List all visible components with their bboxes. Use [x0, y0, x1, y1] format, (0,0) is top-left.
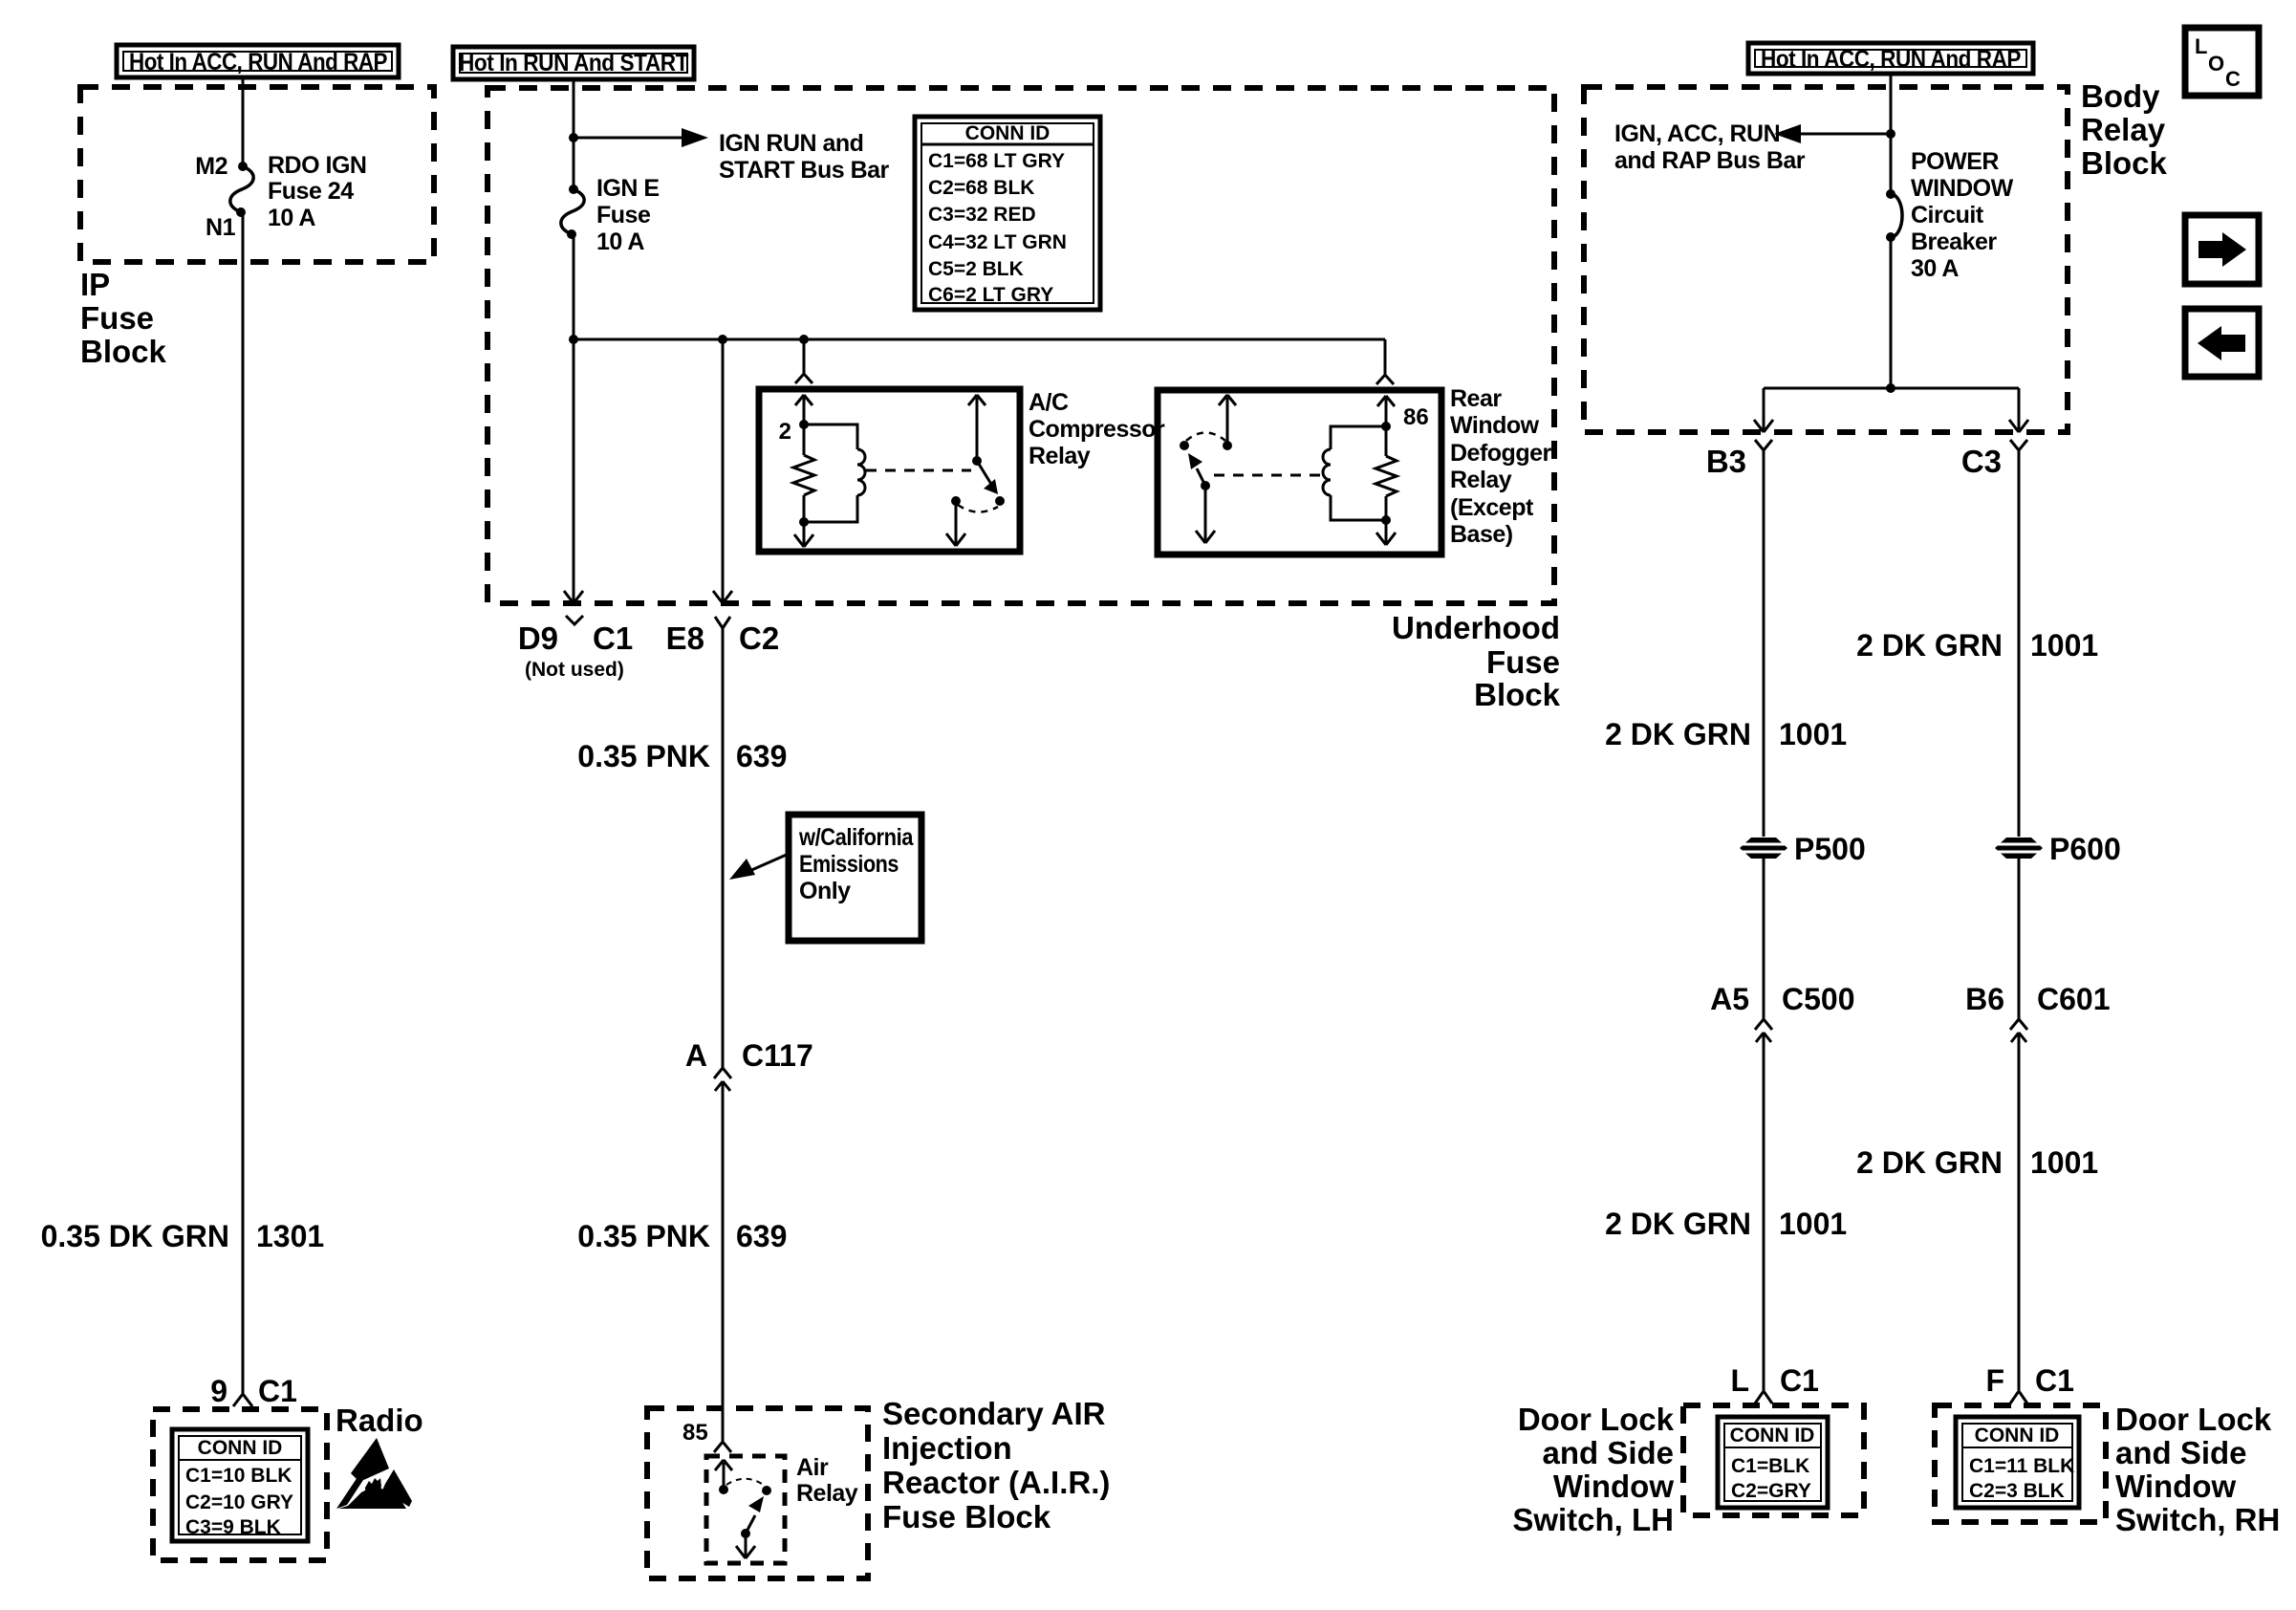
svg-text:C1=11 BLK: C1=11 BLK	[1969, 1455, 2074, 1477]
svg-text:9: 9	[210, 1374, 227, 1408]
connector A5 / C500 labels	[1710, 982, 1854, 1016]
svg-text:85: 85	[682, 1420, 708, 1446]
svg-text:Fuse Block: Fuse Block	[882, 1499, 1051, 1534]
svg-text:Secondary AIR: Secondary AIR	[882, 1396, 1106, 1431]
bus wire horizontal	[574, 338, 1385, 341]
node bottom of coil/resistor	[799, 517, 809, 527]
connector C601 symbol (fork + arrow)	[2010, 1019, 2027, 1390]
svg-text:C3=32 RED: C3=32 RED	[928, 204, 1036, 226]
svg-text:Window: Window	[1553, 1469, 1674, 1504]
A/C Compressor Relay box	[759, 389, 1020, 552]
A/C relay switch common pin (up arrow)	[968, 395, 986, 466]
pass-through grommet P500	[1740, 832, 1866, 866]
connector fork E8/C2	[715, 617, 730, 628]
wire C3 branch with arrow	[2009, 388, 2028, 432]
svg-text:C2=3 BLK: C2=3 BLK	[1969, 1480, 2065, 1502]
Body Relay Block label	[2081, 78, 2168, 181]
pin E8 / connector C2 labels	[666, 620, 780, 656]
arrow from california box to wire	[729, 854, 789, 880]
svg-text:639: 639	[736, 739, 787, 773]
IGN, ACC, RUN and RAP Bus Bar label	[1614, 120, 1806, 174]
Underhood Fuse Block dashed box	[487, 88, 1554, 603]
svg-text:START Bus Bar: START Bus Bar	[719, 157, 890, 184]
svg-text:IP: IP	[80, 267, 110, 302]
air relay lower arrow	[736, 1534, 755, 1558]
svg-text:Door Lock: Door Lock	[2115, 1402, 2272, 1437]
wire C3 down to P600	[2018, 450, 2021, 837]
svg-text:C1=68 LT GRY: C1=68 LT GRY	[928, 150, 1065, 172]
svg-text:1001: 1001	[1779, 1207, 1847, 1241]
svg-text:1001: 1001	[2030, 1145, 2098, 1180]
svg-text:CONN ID: CONN ID	[965, 122, 1051, 144]
svg-text:Only: Only	[799, 878, 851, 904]
wire label 2 DK GRN 1001 (C3 lower)	[1856, 1145, 2098, 1180]
svg-text:(Except: (Except	[1450, 494, 1534, 521]
Rear Window Defogger Relay label	[1450, 385, 1552, 548]
svg-text:Switch, RH: Switch, RH	[2115, 1502, 2280, 1537]
svg-text:C5=2 BLK: C5=2 BLK	[928, 258, 1024, 280]
svg-text:and Side: and Side	[1542, 1435, 1674, 1470]
connector chevron at LH switch	[1755, 1391, 1772, 1403]
svg-text:639: 639	[736, 1219, 787, 1253]
wire from header2 down to fuse IGN E	[573, 81, 575, 189]
svg-text:Relay: Relay	[1029, 443, 1091, 469]
defogger coil ground arrow	[1376, 520, 1396, 545]
svg-text:Reactor (A.I.R.): Reactor (A.I.R.)	[882, 1465, 1110, 1500]
wire D9 branch down with arrow to dashed edge	[564, 339, 583, 603]
svg-text:Window: Window	[2115, 1469, 2236, 1504]
Door Lock and Side Window Switch LH dashed box	[1683, 1405, 1864, 1515]
svg-text:IGN, ACC, RUN: IGN, ACC, RUN	[1614, 120, 1780, 147]
Secondary AIR Injection Reactor fuse block dashed box	[647, 1408, 868, 1578]
svg-text:M2: M2	[195, 153, 227, 180]
fuse IGN E (symbol)	[561, 185, 584, 239]
svg-text:(Not used): (Not used)	[525, 659, 624, 681]
wire from header3 down	[1890, 76, 1893, 194]
svg-text:N1: N1	[206, 214, 236, 241]
svg-text:C1=10 BLK: C1=10 BLK	[185, 1465, 292, 1487]
svg-text:Hot In ACC, RUN And RAP: Hot In ACC, RUN And RAP	[1761, 46, 2021, 73]
svg-text:C601: C601	[2037, 982, 2111, 1016]
connector fork C3	[2010, 440, 2027, 450]
A/C relay coil ground arrow	[794, 522, 813, 547]
svg-text:Defogger: Defogger	[1450, 440, 1552, 467]
A/C relay pin 2 (male arrow)	[795, 395, 812, 424]
node: junction to bus bar arrow	[569, 133, 578, 142]
svg-text:Body: Body	[2081, 78, 2160, 114]
w/California Emissions Only box	[789, 815, 921, 941]
nav box: next page arrow	[2185, 215, 2259, 284]
wire P600 down to C601	[2018, 859, 2021, 1019]
svg-text:2 DK GRN: 2 DK GRN	[1856, 1145, 2003, 1180]
connector C117 symbol (fork + arrow)	[714, 1068, 731, 1441]
air relay contact	[762, 1486, 771, 1495]
Door Lock and Side Window Switch RH dashed box	[1935, 1405, 2106, 1522]
connector B6 / C601 labels	[1965, 982, 2110, 1016]
IP Fuse Block label	[80, 267, 167, 369]
connector L / C1 labels	[1730, 1363, 1818, 1398]
svg-text:Block: Block	[2081, 145, 2168, 181]
svg-text:B3: B3	[1706, 444, 1746, 479]
svg-text:CONN ID: CONN ID	[1730, 1425, 1815, 1447]
wire label 2 DK GRN 1001 (B3 lower)	[1605, 1207, 1847, 1241]
svg-text:C3=9 BLK: C3=9 BLK	[185, 1516, 281, 1538]
svg-text:1301: 1301	[256, 1219, 324, 1253]
svg-text:Hot In ACC, RUN And RAP: Hot In ACC, RUN And RAP	[129, 49, 387, 76]
node at 756	[718, 335, 727, 344]
svg-text:Rear: Rear	[1450, 385, 1502, 412]
defogger switch contact + dashed arc	[1180, 433, 1225, 451]
Radio dashed box	[153, 1409, 327, 1560]
svg-text:Relay: Relay	[796, 1480, 858, 1507]
svg-text:2 DK GRN: 2 DK GRN	[1605, 717, 1751, 751]
svg-text:and Side: and Side	[2115, 1435, 2247, 1470]
svg-text:Fuse: Fuse	[80, 300, 154, 336]
svg-text:2 DK GRN: 2 DK GRN	[1856, 628, 2003, 663]
node at 600	[569, 335, 578, 344]
wire E8 branch down with arrow to dashed edge	[713, 339, 732, 603]
svg-text:Injection: Injection	[882, 1430, 1012, 1466]
svg-text:CONN ID: CONN ID	[198, 1437, 283, 1459]
svg-text:IGN E: IGN E	[596, 175, 660, 202]
Secondary AIR Injection Reactor (A.I.R.) Fuse Block label	[882, 1396, 1110, 1534]
Body Relay Block dashed box	[1584, 87, 2068, 432]
svg-text:Hot In RUN And START: Hot In RUN And START	[459, 50, 688, 76]
resistor (defogger relay)	[1375, 426, 1397, 520]
svg-text:Compressor: Compressor	[1029, 416, 1165, 443]
svg-text:Relay: Relay	[2081, 112, 2166, 147]
svg-text:Circuit: Circuit	[1911, 202, 1984, 228]
wire B3 down to P500	[1763, 450, 1765, 837]
connector F / C1 labels	[1985, 1363, 2073, 1398]
svg-text:C1=BLK: C1=BLK	[1731, 1455, 1809, 1477]
svg-text:0.35 PNK: 0.35 PNK	[577, 739, 710, 773]
svg-text:Fuse 24: Fuse 24	[268, 178, 354, 205]
node bottom (defogger)	[1381, 515, 1391, 525]
svg-text:1001: 1001	[1779, 717, 1847, 751]
svg-text:Radio: Radio	[336, 1403, 423, 1438]
wire from header to fuse M2	[242, 79, 245, 166]
coil (defogger relay)	[1323, 426, 1386, 520]
svg-text:Base): Base)	[1450, 521, 1513, 548]
svg-text:A: A	[685, 1038, 707, 1073]
IGN RUN and START Bus Bar label	[719, 130, 890, 184]
air relay blade with arrow	[741, 1496, 764, 1538]
svg-text:and RAP Bus Bar: and RAP Bus Bar	[1614, 147, 1806, 174]
svg-text:P600: P600	[2049, 832, 2121, 866]
node split	[1886, 383, 1895, 393]
svg-text:C3: C3	[1961, 444, 2002, 479]
node top of coil/resistor	[799, 420, 809, 429]
svg-text:Switch, LH: Switch, LH	[1512, 1502, 1674, 1537]
svg-text:C1: C1	[1780, 1363, 1819, 1398]
wire B3 branch with arrow	[1754, 388, 1773, 432]
svg-text:A5: A5	[1710, 982, 1749, 1016]
svg-text:C2=10 GRY: C2=10 GRY	[185, 1491, 293, 1513]
defogger switch lower arrow	[1196, 486, 1215, 543]
A/C relay switch blade	[977, 461, 998, 494]
svg-text:C1: C1	[2035, 1363, 2074, 1398]
svg-text:0.35 DK GRN: 0.35 DK GRN	[41, 1219, 229, 1253]
wire label 0.35 PNK 639 (upper)	[577, 739, 787, 773]
svg-text:86: 86	[1403, 404, 1429, 430]
svg-text:w/California: w/California	[798, 824, 914, 851]
wire arrow to IGN ACC RUN and RAP bus bar	[1774, 124, 1891, 143]
pin label 9 / connector C1 (radio)	[210, 1374, 297, 1408]
connector chevron at radio	[233, 1394, 252, 1406]
svg-text:C2: C2	[739, 620, 779, 656]
wire arrow to IGN RUN and START Bus Bar	[574, 128, 708, 147]
dashed actuation line (defogger)	[1214, 474, 1323, 477]
fuse RDO IGN (symbol)	[230, 162, 253, 217]
svg-text:30 A: 30 A	[1911, 255, 1959, 282]
LH CONN ID table	[1718, 1417, 1828, 1508]
defogger switch blade with arrow	[1188, 453, 1210, 490]
svg-text:Relay: Relay	[1450, 467, 1512, 493]
svg-text:C2=GRY: C2=GRY	[1731, 1480, 1811, 1502]
wire P500 down to C500	[1763, 859, 1765, 1019]
svg-text:C1: C1	[593, 620, 633, 656]
nav box: previous page arrow	[2185, 309, 2259, 377]
split horizontal wire	[1764, 387, 2019, 390]
connector C500 symbol (fork + arrow)	[1755, 1019, 1772, 1390]
header box: Hot In ACC, RUN And RAP (left)	[117, 45, 399, 77]
coil (A/C relay)	[804, 424, 865, 522]
svg-text:2 DK GRN: 2 DK GRN	[1605, 1207, 1751, 1241]
svg-text:C6=2 LT GRY: C6=2 LT GRY	[928, 284, 1053, 306]
svg-text:C: C	[2225, 67, 2241, 91]
svg-text:10 A: 10 A	[268, 205, 315, 231]
dashed actuation line (A/C relay)	[866, 469, 971, 472]
svg-text:A/C: A/C	[1029, 389, 1069, 416]
svg-text:CONN ID: CONN ID	[1975, 1425, 2060, 1447]
CONN ID table (underhood)	[915, 117, 1100, 310]
svg-text:Door Lock: Door Lock	[1518, 1402, 1675, 1437]
header box: Hot In RUN And START	[453, 47, 694, 79]
resistor (A/C relay)	[793, 424, 814, 522]
svg-text:2: 2	[779, 419, 791, 445]
node: bus bar branch	[1886, 129, 1895, 139]
Air Relay label	[796, 1454, 858, 1507]
A/C relay output arrow	[946, 501, 965, 546]
wire label 2 DK GRN 1001 (B3 upper)	[1605, 717, 1847, 751]
fuse value label: IGN E Fuse 10 A	[596, 175, 660, 255]
Underhood Fuse Block label	[1392, 610, 1561, 712]
wire fuse to bus junction	[573, 234, 575, 339]
ESD symbol	[336, 1438, 412, 1509]
circuit breaker POWER WINDOW (symbol)	[1886, 189, 1902, 242]
svg-text:C500: C500	[1782, 982, 1855, 1016]
svg-text:IGN RUN and: IGN RUN and	[719, 130, 863, 157]
connector chevron above A/C relay	[795, 374, 812, 383]
Radio CONN ID table	[172, 1429, 308, 1541]
wire label 2 DK GRN 1001 (C3 upper)	[1856, 628, 2098, 663]
RH CONN ID table	[1956, 1417, 2079, 1508]
svg-text:L: L	[2195, 34, 2207, 58]
svg-text:L: L	[1730, 1363, 1749, 1398]
svg-text:10 A: 10 A	[596, 228, 644, 255]
svg-text:F: F	[1985, 1363, 2004, 1398]
svg-text:C4=32 LT GRN: C4=32 LT GRN	[928, 231, 1067, 253]
wire label 0.35 DK GRN 1301	[41, 1219, 325, 1253]
connector chevron above defogger relay	[1376, 375, 1394, 384]
wire bus corner to defogger relay	[1384, 339, 1387, 374]
Door Lock and Side Window Switch, RH label	[2115, 1402, 2280, 1537]
svg-text:0.35 PNK: 0.35 PNK	[577, 1219, 710, 1253]
svg-text:C1: C1	[258, 1374, 297, 1408]
svg-text:Underhood: Underhood	[1392, 610, 1560, 645]
svg-text:Fuse: Fuse	[596, 202, 651, 228]
svg-text:RDO IGN: RDO IGN	[268, 152, 366, 179]
A/C relay switch contacts	[951, 496, 1005, 512]
IP Fuse Block dashed box	[80, 87, 434, 262]
A/C Compressor Relay label	[1029, 389, 1165, 469]
pass-through grommet P600	[1995, 832, 2121, 866]
svg-text:Fuse: Fuse	[1486, 644, 1560, 680]
svg-text:P500: P500	[1794, 832, 1866, 866]
Door Lock and Side Window Switch, LH label	[1512, 1402, 1674, 1537]
connector chevron D9 (not used)	[566, 616, 583, 624]
air relay dashed arc	[726, 1479, 765, 1486]
connector fork B3	[1755, 440, 1772, 450]
svg-text:C2=68 BLK: C2=68 BLK	[928, 177, 1034, 199]
defogger relay pin 86 (male arrow)	[1377, 396, 1395, 426]
Rear Window Defogger Relay box	[1158, 390, 1441, 555]
svg-text:O: O	[2208, 52, 2224, 76]
svg-text:Window: Window	[1450, 412, 1540, 439]
svg-text:D9: D9	[518, 620, 558, 656]
svg-text:B6: B6	[1965, 982, 2004, 1016]
node at 841	[799, 335, 809, 344]
fuse value label: RDO IGN Fuse 24 10 A	[268, 152, 366, 231]
connector A / C117 labels	[685, 1038, 813, 1073]
Air Relay dashed box	[706, 1456, 785, 1563]
wire N1 down to radio	[242, 212, 245, 1393]
svg-text:Breaker: Breaker	[1911, 228, 1997, 255]
node top (defogger)	[1381, 422, 1391, 431]
LOC reference box	[2185, 28, 2259, 96]
svg-text:Emissions: Emissions	[799, 851, 899, 878]
svg-text:Air: Air	[796, 1454, 829, 1481]
wire breaker down to split	[1890, 237, 1893, 388]
svg-text:1001: 1001	[2030, 628, 2098, 663]
defogger switch output pin (up arrow)	[1219, 395, 1236, 450]
wire label 0.35 PNK 639 (lower)	[577, 1219, 787, 1253]
svg-text:E8: E8	[666, 620, 704, 656]
connector chevron at AIR fuse block (pin 85)	[714, 1442, 731, 1452]
svg-text:C117: C117	[742, 1038, 813, 1073]
wire bus to A/C relay	[803, 339, 806, 373]
svg-text:Block: Block	[1474, 677, 1561, 712]
wire C2 down to C117	[722, 628, 725, 1068]
svg-text:WINDOW: WINDOW	[1911, 175, 2014, 202]
svg-text:POWER: POWER	[1911, 148, 1999, 175]
header box: Hot In ACC, RUN And RAP (right)	[1748, 43, 2033, 74]
air relay input pin (up arrow)	[715, 1460, 732, 1494]
connector chevron at RH switch	[2010, 1391, 2027, 1403]
pin D9 / connector C1 labels	[518, 620, 633, 681]
POWER WINDOW Circuit Breaker 30 A label	[1911, 148, 2014, 282]
svg-text:Block: Block	[80, 334, 167, 369]
